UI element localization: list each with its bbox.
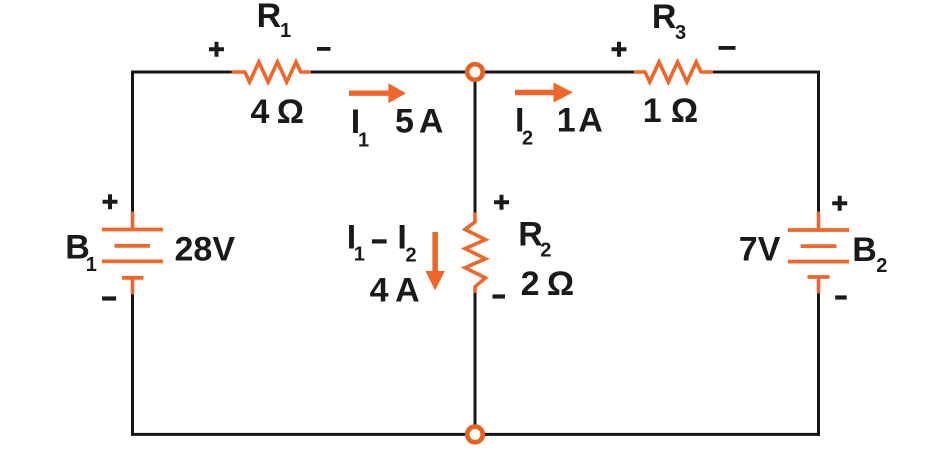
- label R1: [257, 0, 292, 42]
- svg-text:2: 2: [540, 240, 551, 262]
- label I1 5 A: [351, 103, 444, 152]
- svg-text:2: 2: [876, 255, 887, 277]
- current arrow I1: [349, 83, 406, 103]
- svg-text:7V: 7V: [739, 231, 781, 269]
- R1 value 4 ohm: [251, 93, 305, 131]
- R3 polarity minus: [719, 46, 736, 50]
- svg-text:B: B: [852, 231, 877, 269]
- svg-text:2: 2: [522, 128, 533, 150]
- wire: middle branch lower (R2 to node 2): [474, 293, 477, 428]
- svg-text:1: 1: [557, 102, 576, 140]
- R2 polarity plus: [494, 195, 509, 210]
- svg-text:1: 1: [358, 130, 369, 152]
- wire: left branch lower (B1 to bottom-left corner): [131, 294, 134, 436]
- svg-text:1: 1: [86, 254, 97, 276]
- battery B2: [788, 212, 849, 294]
- svg-text:A: A: [395, 272, 420, 310]
- node 2 (bottom junction): [467, 427, 483, 443]
- svg-text:1: 1: [354, 244, 365, 266]
- svg-text:R: R: [518, 216, 543, 254]
- label B2: [852, 231, 887, 277]
- svg-text:A: A: [419, 103, 444, 141]
- R1 polarity plus: [209, 42, 224, 57]
- wire: middle branch upper (node 1 to R2): [474, 80, 477, 214]
- node 1 (top junction): [467, 64, 483, 80]
- B2 polarity minus: [835, 295, 847, 299]
- svg-text:R: R: [652, 0, 677, 36]
- svg-text:A: A: [578, 102, 603, 140]
- svg-text:R: R: [257, 0, 282, 35]
- R2 polarity minus: [493, 294, 506, 298]
- wire: top-right horizontal (R3 to right branch): [713, 71, 820, 74]
- label R2: [518, 216, 551, 262]
- svg-text:2: 2: [406, 245, 417, 267]
- svg-text:Ω: Ω: [547, 265, 574, 303]
- wire: bottom (bottom-left corner to bottom-right corner): [131, 433, 820, 436]
- current arrow I2: [515, 83, 573, 103]
- resistor R1: [232, 62, 311, 82]
- wire: top-left horizontal (B1 plus terminal to R1): [131, 71, 233, 74]
- B2 polarity plus: [832, 196, 847, 211]
- R1 polarity minus: [317, 47, 331, 51]
- wire: right branch upper (top-right corner to B2): [817, 71, 820, 213]
- B1 polarity minus: [102, 296, 116, 300]
- svg-text:Ω: Ω: [671, 92, 698, 130]
- wire: right branch lower (B2 to bottom-right corner): [817, 294, 820, 436]
- R2 value 2 ohm: [521, 265, 575, 303]
- R3 value 1 ohm: [643, 92, 698, 130]
- wire: top right of node 1 (node 1 to R3): [482, 71, 635, 74]
- B1 polarity plus: [103, 194, 118, 209]
- svg-text:3: 3: [675, 22, 686, 44]
- resistor R3: [634, 62, 713, 82]
- resistor R2: [465, 212, 486, 293]
- label R3: [652, 0, 686, 44]
- wire: left branch upper (top-left corner to B1): [131, 71, 134, 213]
- svg-text:2: 2: [521, 265, 540, 303]
- battery B1: [102, 212, 163, 295]
- label 4 A: [370, 272, 420, 310]
- label I1 minus I2: [347, 219, 417, 267]
- svg-text:5: 5: [395, 103, 414, 141]
- svg-text:28V: 28V: [175, 231, 236, 269]
- svg-text:4: 4: [370, 272, 389, 310]
- svg-text:1: 1: [280, 20, 291, 42]
- wire: top middle (R1 to node 1): [311, 71, 468, 74]
- svg-text:4: 4: [251, 93, 270, 131]
- label B1: [65, 229, 97, 277]
- svg-text:Ω: Ω: [277, 93, 304, 131]
- svg-text:1: 1: [643, 92, 662, 130]
- label I2 1 A: [515, 102, 603, 150]
- R3 polarity plus: [612, 42, 627, 57]
- current arrow I1 minus I2 (downward): [425, 232, 444, 291]
